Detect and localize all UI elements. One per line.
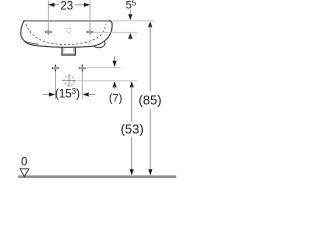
dim (7): lower leader from drain circle xyxy=(78,80,137,82)
dim (15.3): right outside arrow xyxy=(83,92,89,96)
svg-text:23: 23 xyxy=(60,0,73,12)
svg-text:0: 0 xyxy=(21,156,27,168)
washbasin body fill xyxy=(21,21,112,48)
tap hole right symbol xyxy=(86,29,94,35)
svg-text:(7): (7) xyxy=(109,93,122,105)
drain outlet circle (dashed) with crosshair xyxy=(62,74,76,87)
svg-text:(85): (85) xyxy=(139,92,162,107)
dim 23: dimension line xyxy=(48,4,59,6)
washbasin outer outline xyxy=(21,21,112,48)
drain trap box xyxy=(62,47,75,55)
basin left ear lip xyxy=(24,41,39,45)
dim 5.5: lower reference line (tap hole level) xyxy=(94,31,137,33)
dim 23: left arrowhead xyxy=(48,3,54,7)
datum triangle xyxy=(20,169,29,177)
svg-text:(153): (153) xyxy=(55,87,80,100)
dim 23: right extension line xyxy=(89,0,91,35)
dim (7): up arrow xyxy=(113,81,117,87)
optional middle tap hole (dashed circle) xyxy=(67,28,72,33)
dim 5.5: upper reference line (basin top level) xyxy=(113,20,155,22)
dim 23: left extension line xyxy=(47,0,49,35)
dim (15.3): left extension line below left fixing hole xyxy=(54,72,56,100)
washbasin top edge (light) xyxy=(23,20,110,22)
dim 23: right arrowhead xyxy=(84,3,90,7)
basin inner rim (dashed hidden edge) xyxy=(26,24,106,45)
dim (15.3): right extension line below right fixing hole xyxy=(81,72,83,100)
dim (85): vertical line floor to rim level xyxy=(148,21,152,27)
drain trap box inner line xyxy=(64,48,74,54)
fixing hole right symbol xyxy=(78,64,86,72)
basin right ear lip xyxy=(93,42,105,48)
dim 5.5: up arrow xyxy=(128,33,132,39)
dim (15.3): left outside arrow xyxy=(43,94,50,96)
svg-text:(53): (53) xyxy=(121,122,144,137)
fixing hole left symbol xyxy=(52,64,60,72)
dim 5.5: down arrow xyxy=(129,10,131,16)
floor line xyxy=(18,175,176,178)
dim (53): vertical line floor to drain level xyxy=(130,81,134,87)
dim (7): down arrow xyxy=(114,56,116,62)
tap hole left symbol xyxy=(44,29,52,35)
dim (7): upper leader from fixing holes xyxy=(87,67,121,69)
svg-text:55: 55 xyxy=(126,0,137,11)
